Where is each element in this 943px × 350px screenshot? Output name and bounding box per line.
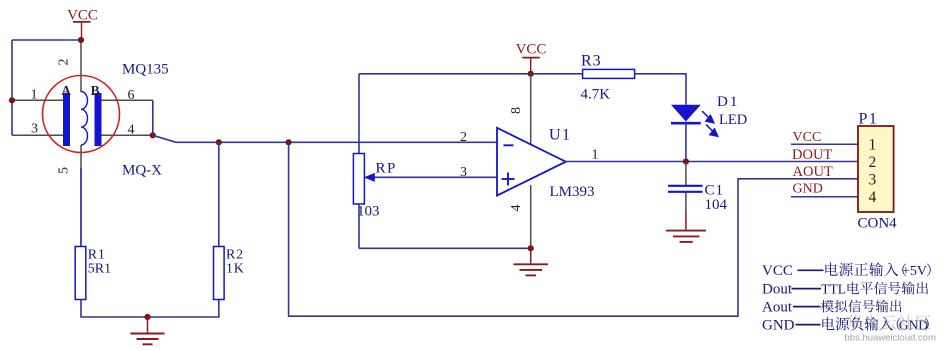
node junction ground rail [144,314,150,320]
power symbol VCC (center) [516,42,547,74]
wire sensor pin 4 [101,134,153,136]
svg-text:LM393: LM393 [550,184,595,200]
wire sensor pin 2 stem [80,40,82,92]
wire VCC rail to left [12,39,81,41]
gas sensor MQ135 circle [43,76,120,153]
svg-text:VCC: VCC [793,130,822,145]
svg-text:1K: 1K [226,262,245,277]
wire sensor pin 5 to R1 [80,145,82,247]
ground symbol (C1) [666,231,706,242]
svg-text:4.7K: 4.7K [581,87,611,103]
wire C1 top stem [685,162,687,186]
svg-text:AOUT: AOUT [793,164,833,180]
svg-text:6: 6 [128,88,135,103]
capacitor C1 [668,185,703,187]
svg-text:DOUT: DOUT [792,147,832,163]
LED arrows [702,111,718,136]
svg-text:3: 3 [869,172,877,189]
resistor R1 [75,247,86,300]
node junction pin1/left rail [9,97,15,103]
wire P1 pin 1 stub [791,143,858,145]
node junction LED/C1/output [683,158,689,164]
svg-text:GND: GND [762,317,795,333]
svg-text:2: 2 [57,59,72,66]
sensor heater coil [81,92,88,145]
svg-text:D1: D1 [717,94,739,110]
svg-text:1: 1 [592,147,599,162]
svg-text:P1: P1 [859,111,879,128]
svg-text:VCC: VCC [516,42,547,58]
svg-text:R1: R1 [88,248,106,263]
svg-text:+5V: +5V [902,264,927,279]
svg-text:GND: GND [793,182,823,197]
wire RP rail bottom [358,204,360,248]
wire R2 bottom [218,300,220,318]
potentiometer RP body [353,154,364,205]
wire op-amp output (pin 1) to P1 [566,161,858,163]
RP wiper arrowhead [364,173,375,182]
power symbol VCC (top-left) [67,8,98,41]
wire op-amp pin 4 [530,185,532,248]
svg-text:Aout: Aout [762,299,793,315]
LED D1 [671,105,701,122]
svg-text:bbs.huaweicloud.com: bbs.huaweicloud.com [845,333,936,344]
wire C1 bottom stem [685,193,687,213]
svg-text:3: 3 [31,122,38,137]
svg-text:VCC: VCC [762,263,793,279]
wire pin6 down to pin4 [152,100,154,135]
op-amp U1 LM393 [497,128,566,196]
wire sensor pin 1 [12,99,64,101]
svg-text:104: 104 [705,197,728,213]
svg-text:4: 4 [128,123,135,138]
svg-text:U1: U1 [549,126,572,143]
resistor R2 [214,247,225,300]
op-amp minus input mark [504,144,514,146]
wire sensor pin 6 [101,99,153,101]
wire comparator input row [176,141,497,143]
svg-text:4: 4 [869,189,877,206]
node junction pin4 [150,132,156,138]
connector P1 [858,126,894,212]
wire diagonal from pin4 node [153,135,176,142]
svg-text:RP: RP [376,161,397,177]
wire RP wiper to pin 3 [374,176,497,178]
node junction AOUT branch [286,139,292,145]
wire RP rail top [358,74,360,154]
wire AOUT loop [289,142,858,316]
svg-text:MQ135: MQ135 [122,62,169,78]
svg-text:LED: LED [719,112,747,128]
node junction pin4/ground row [528,245,534,251]
svg-text:4: 4 [509,205,524,212]
op-amp plus input mark [502,178,515,180]
ground symbol (op-amp) [514,248,549,275]
svg-text:1: 1 [869,136,877,153]
wire P1 pin 4 stub [791,196,858,198]
svg-text:5: 5 [57,167,72,174]
svg-text:MQ-X: MQ-X [122,163,162,179]
svg-text:R2: R2 [226,248,244,263]
sensor electrode A [63,93,70,146]
svg-text:3: 3 [460,165,467,180]
svg-text:Dout: Dout [762,281,793,297]
wire top feedback row [359,73,583,75]
wire ground rail [80,316,219,318]
wire op-amp pin 8 [530,74,532,146]
svg-text:R3: R3 [581,53,602,70]
svg-text:TTL: TTL [821,281,846,296]
svg-text:2: 2 [869,154,877,171]
svg-text:5R1: 5R1 [88,262,111,277]
svg-text:8: 8 [509,107,524,114]
wire bottom row to ground [359,247,531,249]
resistor R3 [583,69,635,78]
wire LED to output row [685,123,687,161]
sensor electrode B [95,93,102,146]
wire R3 to LED [635,74,686,105]
ground symbol (left) [131,317,165,344]
watermark huaweicloud [847,315,931,330]
svg-text:CON4: CON4 [858,216,898,232]
svg-text:103: 103 [357,204,380,220]
svg-text:1: 1 [31,87,38,102]
node junction R2 top [216,139,222,145]
wire left rail down [11,40,13,135]
svg-text:2: 2 [460,130,467,145]
svg-text:A: A [61,83,71,98]
node junction VCC center [528,71,534,77]
wire sensor pin 3 [12,134,64,136]
wire R1 bottom [80,300,82,318]
node junction VCC/pin2 [78,37,84,43]
svg-text:B: B [91,83,100,98]
wire R2 top stem [218,142,220,246]
